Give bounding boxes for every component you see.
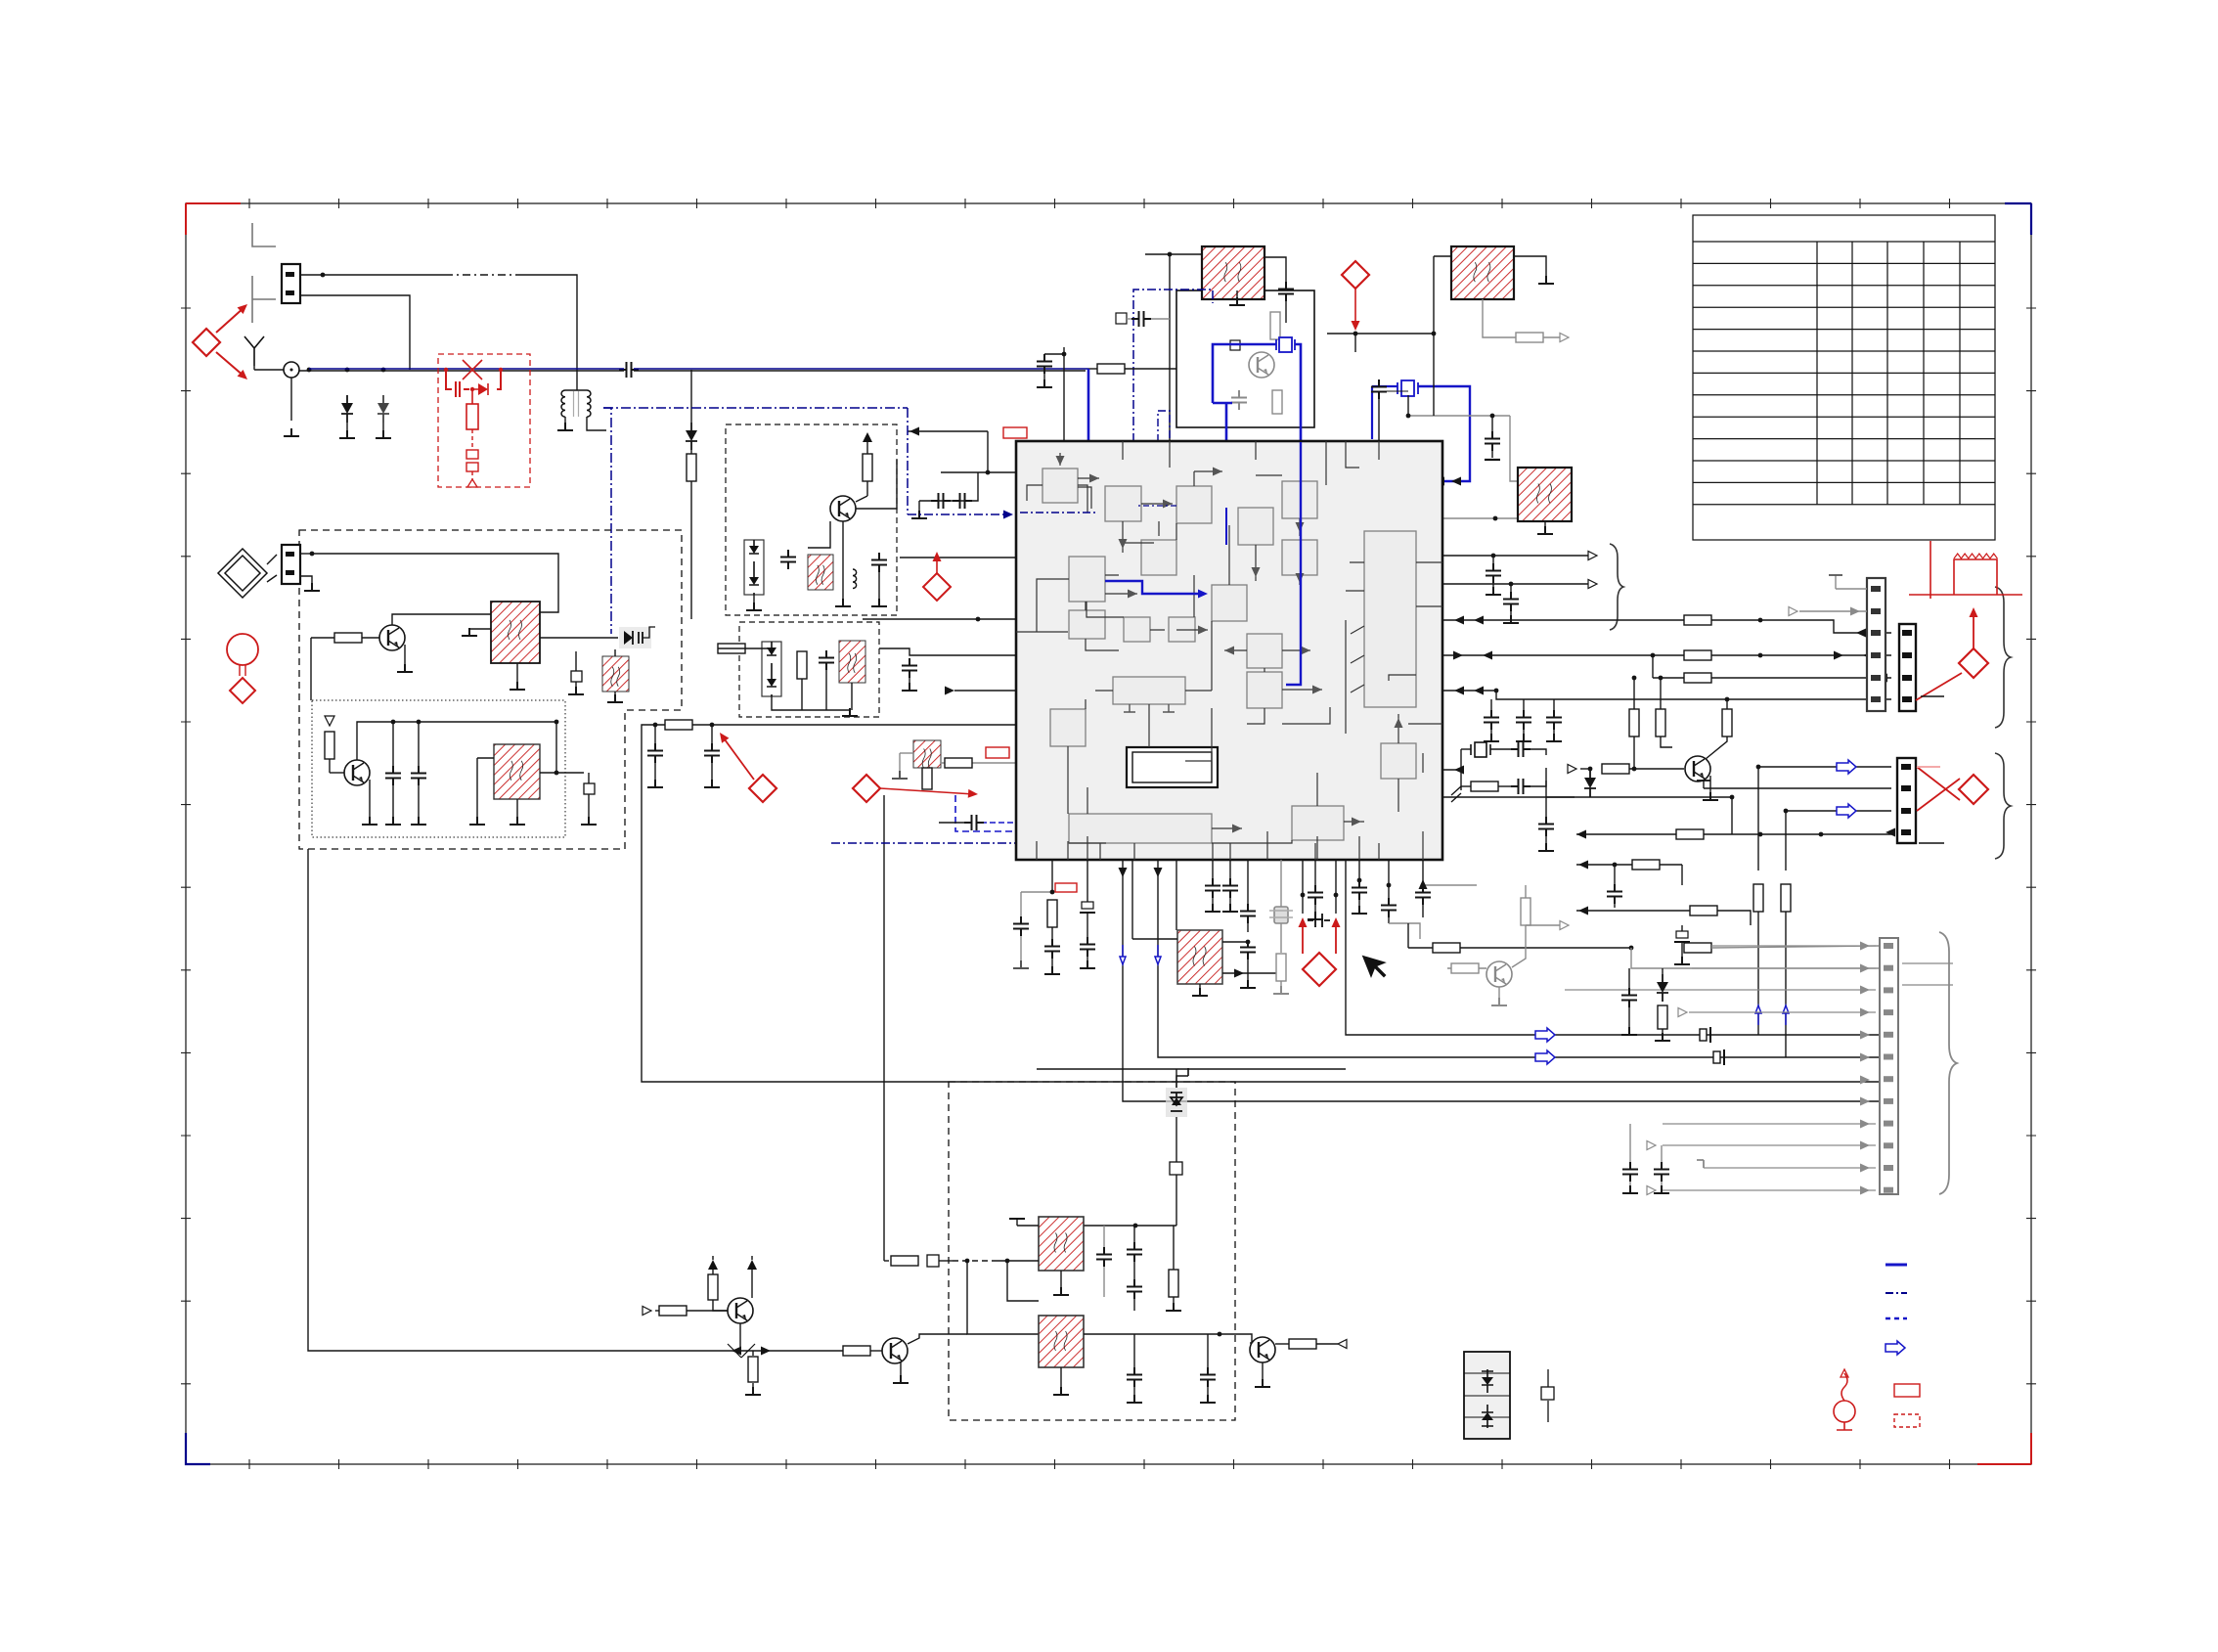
trimmer cap below2: [1080, 902, 1095, 913]
blue route major: [1319, 386, 1470, 556]
capacitor C osc1: [385, 766, 401, 785]
wire conn pin2 to RF line: [300, 295, 410, 370]
capacitor C below r1: [1352, 880, 1367, 900]
wire J4 pin: [1663, 1144, 1876, 1146]
wire: [1051, 927, 1053, 941]
junction: [1005, 1259, 1010, 1264]
wire conn pin1 b: [518, 275, 577, 390]
ground C osc1: [385, 817, 401, 825]
wire: [718, 647, 745, 649]
resistor R af in: [891, 1256, 918, 1266]
junction: [307, 368, 312, 373]
resistor R base Q1: [334, 633, 362, 643]
blue arrow row1058: [1535, 1028, 1555, 1042]
blue corner mark top-right: [2005, 203, 2031, 235]
capacitor C T5b: [1240, 940, 1256, 960]
wire: [1553, 730, 1555, 736]
wire row 741: [642, 725, 1016, 727]
wire TB left: [1434, 255, 1451, 257]
blue dash-dot osc: [1133, 290, 1213, 442]
wire: [1044, 353, 1064, 355]
gnd af2: [1166, 1303, 1181, 1311]
wire Q4 coll: [751, 1270, 753, 1298]
wire: [1663, 910, 1690, 912]
wire: [575, 682, 577, 689]
wire: [1580, 768, 1590, 770]
gnd bar: [1485, 459, 1500, 461]
open arrow xin: [1568, 765, 1576, 774]
blue dashed cap lead: [981, 822, 1016, 824]
dashed box FM RF: [726, 424, 897, 615]
wire: [1145, 253, 1170, 255]
wire: [1523, 699, 1525, 706]
legend red squiggle antenna: [1834, 1369, 1855, 1430]
legend blue arrow: [1885, 1341, 1905, 1355]
blue route b8-b12: [1105, 581, 1204, 594]
wire: [1510, 584, 1512, 594]
resistor R rail: [748, 1357, 758, 1382]
ground trimmer2: [581, 817, 597, 825]
wire: [711, 763, 713, 781]
wire: [1422, 860, 1424, 885]
wire row815: [1442, 796, 1732, 798]
junction: [965, 1259, 970, 1264]
capacitor C bus: [1546, 710, 1562, 730]
wire: [1314, 905, 1316, 914]
wire J4 pin: [1704, 1167, 1876, 1169]
resistor R af2: [1169, 1270, 1178, 1297]
off-page diamond antenna: [193, 329, 220, 356]
wire: [1614, 902, 1616, 908]
resistor R rf to ic: [1097, 364, 1125, 374]
gray arrowhead: [1850, 607, 1860, 616]
junction: [1334, 893, 1339, 898]
wire J4 pin: [1692, 967, 1876, 969]
red diamond below IC: [1303, 953, 1336, 986]
arrowhead left: [909, 427, 919, 436]
gnd TA: [1229, 297, 1245, 305]
open arrow: [1560, 334, 1569, 342]
junction: [1509, 582, 1514, 587]
wire loop b: [267, 575, 277, 582]
arrowhead: [1885, 828, 1895, 837]
wire J4 pin: [1663, 1123, 1876, 1125]
wire: [1051, 959, 1053, 968]
capacitor C br2: [1415, 885, 1431, 905]
wire out1: [1442, 555, 1589, 557]
legend red box: [1894, 1384, 1920, 1397]
wire: [1087, 913, 1088, 939]
node circle: [284, 362, 299, 378]
wire pin2: [1799, 610, 1867, 612]
wire: [1681, 942, 1683, 959]
resistor R row780: [945, 758, 972, 768]
wire below m1: [1212, 860, 1214, 878]
black stub: [1921, 695, 1944, 697]
wire xin: [1442, 769, 1461, 771]
hatched transformer T6: [1039, 1217, 1084, 1271]
junction: [1357, 878, 1362, 883]
gray arrowhead: [1860, 1164, 1870, 1173]
navy dashdot top: [603, 407, 908, 409]
gnd varac1: [746, 603, 762, 610]
wire pin stub: [1835, 575, 1837, 589]
wire: [1662, 1029, 1663, 1035]
blue corner mark bottom-left: [186, 1433, 210, 1464]
wire conn2 p1: [1758, 766, 1891, 768]
wire T5 right2: [1222, 972, 1281, 974]
wire: [1358, 900, 1360, 908]
arrowhead: [1453, 651, 1463, 660]
wire: [1388, 917, 1390, 923]
dashed box FM osc: [739, 622, 879, 717]
gray arrowhead: [1860, 1031, 1870, 1040]
junction: [1432, 332, 1437, 336]
wire: [654, 725, 656, 743]
red arrowhead: [238, 301, 250, 314]
wire link 1093: [1037, 1068, 1346, 1070]
red label box: [1003, 427, 1027, 438]
arrowhead: [1578, 907, 1588, 915]
red U link: [1303, 919, 1336, 954]
resistor R bias Q2: [325, 732, 334, 759]
junction: [554, 771, 559, 776]
arrowhead: [1834, 651, 1843, 660]
transistor Q6: [1250, 1337, 1275, 1362]
open arrow out2: [1588, 580, 1597, 589]
wire: [654, 763, 656, 781]
wire row780: [941, 762, 1016, 764]
red arrow right: [880, 788, 974, 794]
wire: [362, 637, 379, 639]
wire: [1378, 399, 1380, 441]
ic arrow: [1128, 590, 1137, 599]
arrowhead: [1474, 616, 1484, 625]
wire: [1492, 583, 1494, 589]
red arrow to antenna: [216, 352, 244, 377]
blue up arrow 2: [1783, 1005, 1789, 1025]
wire: [1262, 1362, 1264, 1381]
resistor R gray: [1276, 954, 1286, 981]
gnd midc: [1621, 1027, 1637, 1035]
wire: [1629, 768, 1684, 770]
wire cap stub: [1491, 416, 1493, 433]
red dashed lead: [471, 429, 473, 450]
hatched transformer A: [1202, 246, 1264, 299]
gnd below2: [1080, 960, 1095, 968]
red line to pin: [1916, 673, 1962, 700]
wire: [1490, 699, 1492, 706]
ground node: [284, 428, 299, 436]
junction: [1651, 653, 1656, 658]
junction: [1421, 883, 1426, 888]
wire: [1103, 1267, 1105, 1297]
wire: [851, 683, 853, 710]
capacitor C link: [1131, 311, 1151, 327]
IC sub-block b16: [1050, 709, 1086, 746]
gray arrowhead: [1860, 1008, 1870, 1017]
blue vert b14: [1286, 442, 1301, 685]
blue dashdot inside: [1020, 512, 1095, 513]
capacitor C below2: [1080, 937, 1095, 957]
wire: [1176, 1117, 1177, 1162]
small square fuse: [1170, 1162, 1182, 1175]
red circle symbol: [227, 634, 258, 676]
arrowhead row706: [945, 687, 954, 695]
junction: [1758, 832, 1763, 837]
wire vert p1b: [1757, 912, 1759, 1035]
wire: [1544, 521, 1546, 528]
wire: [655, 1310, 659, 1312]
wire gray to hatchC: [1510, 416, 1518, 481]
resistor R x2: [1602, 764, 1629, 774]
wire pin2: [1692, 967, 1880, 969]
junction: [321, 273, 326, 278]
wire: [311, 637, 334, 639]
capacitor C osc2: [411, 766, 426, 785]
gnd Qbuf: [1703, 792, 1718, 800]
wire L1 sec: [587, 417, 606, 430]
wire: [1354, 334, 1356, 352]
long wire Vb to pin6: [1158, 860, 1880, 1057]
resistor R row969a: [1433, 943, 1460, 953]
wire TB bot: [1483, 299, 1516, 337]
gnd q6: [1255, 1379, 1270, 1387]
wire row634: [1442, 619, 1684, 621]
open arrow in: [643, 1307, 651, 1316]
red arrow diag: [722, 736, 754, 780]
resistor R mid: [1658, 1005, 1667, 1029]
wire: [1490, 748, 1514, 750]
gnd row670: [902, 683, 917, 691]
open arrow gray: [1789, 607, 1797, 616]
capacitor C bus: [1516, 710, 1531, 730]
wire: [1629, 1182, 1631, 1187]
red arrow up: [1973, 611, 1974, 648]
red arrow up: [936, 556, 938, 573]
varactor pair 2: [762, 642, 781, 696]
IC sub-block b3: [1176, 486, 1212, 523]
resistor R below1: [1047, 900, 1057, 927]
capacitor C bus: [1484, 710, 1499, 730]
stub bar: [1187, 1068, 1189, 1076]
IC sub-block b9: [1069, 610, 1105, 639]
transistor Q3 FM amp: [830, 496, 856, 521]
wire row815 link: [1546, 796, 1575, 798]
big gray brace J4: [1939, 932, 1957, 1194]
wire to pin: [1711, 946, 1880, 948]
wire: [713, 1300, 728, 1311]
red diamond top: [1342, 261, 1369, 289]
junction: [1629, 946, 1634, 951]
faint red stub: [1917, 766, 1940, 768]
wire Q2 top: [357, 722, 556, 760]
gnd a: [647, 780, 663, 787]
red diamond J3: [1959, 775, 1988, 804]
gnd below m1: [1205, 904, 1220, 912]
capacitor C osc: [1231, 390, 1247, 410]
junction: [1301, 893, 1306, 898]
junction: [391, 720, 396, 725]
IC sub-block b1: [1042, 469, 1078, 503]
long wire Vc to pin5: [1346, 860, 1880, 1035]
IC sub-block b6: [1282, 540, 1317, 575]
series cap row1058: [1700, 1027, 1710, 1043]
arrowhead: [1474, 687, 1484, 695]
wire T3 in: [555, 722, 557, 773]
capacitor C row512 b: [953, 493, 972, 509]
wire: [1553, 699, 1555, 706]
wire gray hatchC2: [1416, 517, 1519, 519]
red arrowhead down: [1352, 321, 1360, 331]
blue route osc loop: [1213, 344, 1276, 403]
wire: [1447, 967, 1486, 969]
wire row670r b: [1711, 654, 1891, 656]
ic arrow: [1395, 718, 1403, 728]
blue route xtal left: [1372, 385, 1397, 387]
wire: [753, 595, 755, 604]
capacitor C af5: [1200, 1367, 1216, 1387]
wire: [1207, 1387, 1209, 1397]
connector J4 (gray tall): [1880, 938, 1898, 1194]
wire: [1498, 987, 1500, 1000]
gnd T5: [1192, 988, 1208, 996]
connector J3 (black): [1897, 758, 1916, 843]
wire: [939, 1260, 953, 1262]
arrowhead into pin: [1856, 629, 1866, 638]
small trimmer square: [571, 671, 582, 682]
small square + cap pair: [1116, 313, 1127, 324]
wire: [752, 1351, 754, 1356]
wire: [1530, 749, 1546, 755]
wire: [1133, 1299, 1135, 1311]
wire: [870, 1350, 882, 1352]
sheet border frame: [186, 203, 2031, 1464]
wire Q3 out: [856, 460, 897, 509]
junction: [381, 368, 386, 373]
gray arrowhead: [1860, 1141, 1870, 1150]
capacitor C row670: [902, 658, 917, 678]
RF line black left: [299, 370, 624, 372]
wire: [1173, 1226, 1175, 1270]
gray arrowhead: [1860, 942, 1870, 951]
arrowhead: [1454, 616, 1464, 625]
gnd gray: [1273, 986, 1289, 994]
gnd q5: [893, 1375, 909, 1383]
wire: [1133, 1387, 1135, 1397]
ground D1: [339, 430, 355, 438]
gnd below r1: [1352, 906, 1367, 914]
open arrow gray: [1647, 1141, 1656, 1150]
blue resonator: [1276, 337, 1295, 352]
wire: [1628, 1007, 1630, 1029]
resistor R q5 in: [843, 1346, 870, 1356]
trim cap: [1674, 931, 1690, 942]
legend blue solid: [1885, 1264, 1907, 1267]
dashed link: [953, 1260, 994, 1262]
two stub lines right of J4: [1902, 963, 1953, 985]
transistor Q gray mid: [1486, 961, 1512, 987]
resistor R vert p3: [1781, 884, 1791, 912]
wire T5 right: [1222, 941, 1248, 943]
ic arrow: [1163, 500, 1173, 509]
wire: [900, 752, 913, 754]
wire row670r: [1442, 654, 1684, 656]
red capacitor: [456, 381, 460, 397]
IC sub-block b2: [1105, 486, 1141, 521]
arrowhead: [1863, 651, 1873, 660]
wire: [1661, 737, 1672, 747]
IC sub-block b5: [1282, 481, 1317, 518]
resistor R fm1: [687, 454, 696, 481]
supply diode arrow 2: [747, 1256, 757, 1270]
wire conn pin1 a: [300, 274, 445, 276]
blue dashed vert: [1226, 666, 1228, 795]
wire: [918, 501, 920, 513]
wire below r1: [1358, 860, 1360, 880]
black cap link: [1308, 914, 1330, 927]
wire: [1726, 699, 1728, 709]
wire: [1614, 865, 1616, 886]
wire: [752, 1383, 754, 1389]
wire: [1422, 905, 1424, 917]
transistor Q5: [882, 1338, 908, 1363]
wire: [1250, 1342, 1252, 1344]
wire: [418, 785, 420, 818]
gray arrowhead: [1860, 964, 1870, 973]
red arrowhead right: [968, 789, 979, 799]
capacitor C TA: [1278, 282, 1294, 301]
legend blue dashed: [1885, 1317, 1907, 1320]
blue vert main: [1087, 369, 1090, 551]
arrowhead up: [1419, 879, 1428, 889]
gnd qg: [1491, 998, 1507, 1005]
wire: [392, 785, 394, 818]
wire dashed break: [445, 274, 518, 276]
stub below J3: [1919, 842, 1944, 844]
junction: [1406, 414, 1411, 419]
capacitor C T5a: [1240, 904, 1256, 923]
ic arrow: [1312, 686, 1322, 694]
resistor R fm2: [863, 454, 872, 481]
arrowhead: [1578, 861, 1588, 870]
wire Qbuf coll: [1706, 737, 1727, 759]
wire vert p1: [1757, 767, 1759, 871]
junction: [1387, 883, 1392, 888]
diode D2: [377, 395, 389, 423]
gnd af4: [1127, 1395, 1142, 1403]
wire: [1229, 898, 1231, 906]
red junction dots: [444, 368, 503, 391]
ground C osc2: [411, 817, 426, 825]
junction: [1133, 1224, 1138, 1228]
transistor Q4: [728, 1298, 753, 1323]
resistor R fmo: [797, 651, 807, 679]
wire: [588, 794, 590, 818]
junction: [310, 552, 315, 557]
stub pin11: [1697, 1160, 1704, 1168]
gray arrowhead: [1860, 1097, 1870, 1106]
wire below m2: [1229, 860, 1231, 878]
ic arrow: [1352, 818, 1361, 826]
resistor R out top: [1516, 333, 1543, 342]
gnd: [892, 771, 908, 779]
wire red b: [1335, 860, 1337, 914]
wire: [1731, 797, 1733, 834]
gnd Q3: [835, 599, 851, 606]
red diamond J2: [1959, 648, 1988, 678]
red resistor: [466, 389, 478, 429]
